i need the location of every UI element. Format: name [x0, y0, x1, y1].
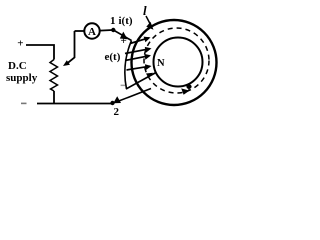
winding turn 4 [127, 66, 151, 70]
svg-text:A: A [88, 26, 96, 38]
winding outer envelope arc [125, 41, 132, 90]
svg-text:D.C: D.C [8, 60, 27, 72]
svg-text:+: + [17, 38, 23, 50]
label - (supply negative) [21, 103, 27, 105]
winding turn 1 [130, 38, 149, 44]
winding turn 2 [125, 49, 150, 54]
svg-text:N: N [157, 58, 165, 69]
wire wiper corner to ammeter [75, 30, 85, 32]
node 2 [110, 101, 114, 105]
wiper arrowhead [63, 60, 70, 66]
svg-text:+: + [121, 35, 127, 47]
arrowhead at node 2 [113, 96, 121, 103]
mean path dashed circle [144, 28, 209, 93]
label phi [186, 84, 191, 89]
ammeter A [84, 23, 99, 38]
flux arrowhead on dashed path [181, 88, 189, 94]
toroid core inner circle [154, 38, 203, 87]
leader arrowhead [146, 22, 153, 30]
wire bottom rail to node 2 [37, 103, 113, 105]
wire node 1 to winding top [113, 30, 131, 41]
svg-text:2: 2 [114, 106, 120, 118]
svg-text:supply: supply [6, 72, 38, 84]
label - (coil) [121, 85, 126, 87]
winding turn 3 [125, 56, 150, 61]
svg-text:i(t): i(t) [119, 15, 133, 27]
toroid core outer circle [132, 20, 217, 105]
svg-text:l: l [143, 3, 147, 18]
wire top-left from + to resistor top [26, 45, 54, 60]
winding turn 5 [126, 73, 156, 90]
wire winding bottom to node 2 [116, 89, 152, 103]
arrowhead i(t) [120, 32, 128, 40]
leader line for l [146, 16, 151, 26]
wire ammeter to node 1 [100, 29, 113, 32]
resistor (rheostat zigzag) [50, 60, 58, 92]
wire resistor bottom lead [53, 91, 55, 104]
svg-text:1: 1 [110, 15, 116, 27]
wire rheostat wiper vertical [67, 31, 75, 64]
node 1 [111, 28, 115, 32]
svg-text:e(t): e(t) [105, 51, 121, 63]
